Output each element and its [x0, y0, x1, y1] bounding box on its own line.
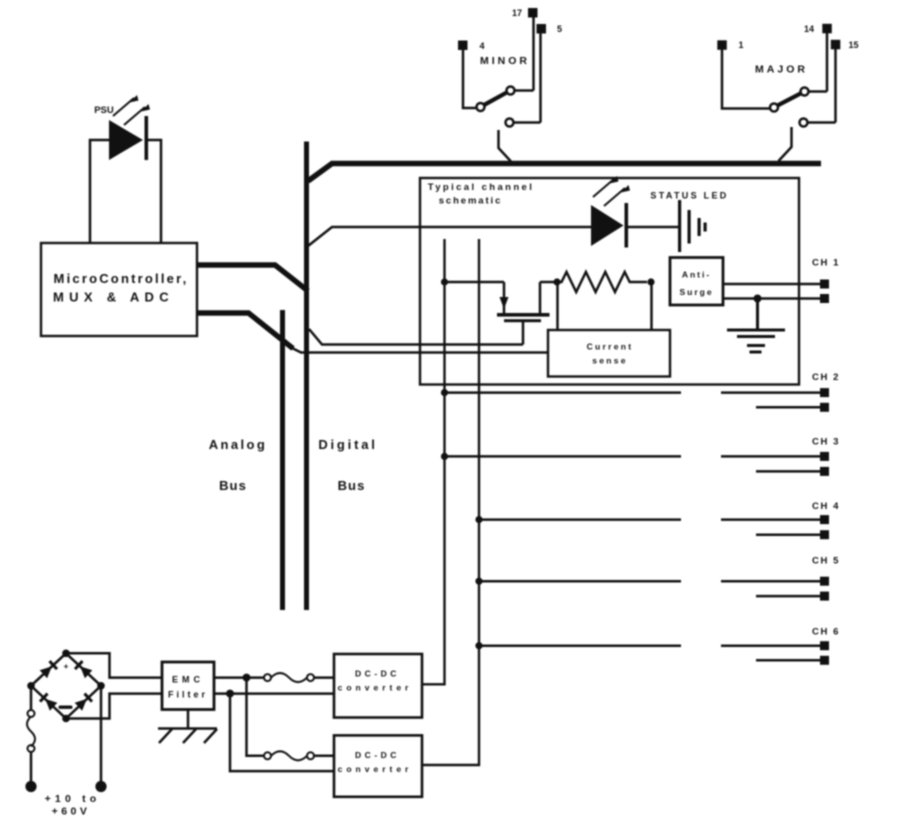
svg-text:5: 5 [557, 24, 562, 34]
svg-text:EMC: EMC [172, 675, 204, 685]
fuse F2 [264, 673, 334, 682]
EMC filter block [162, 662, 214, 710]
channel CH2 [441, 372, 840, 412]
transistor Q1 (MOSFET) [445, 282, 558, 345]
wire MCU digital out (thick) [197, 265, 308, 291]
channel CH3 [441, 437, 840, 476]
wire gate feed from digital bus [309, 329, 523, 345]
svg-text:STATUS LED: STATUS LED [650, 191, 728, 201]
supply rail 1 (top DC-DC to channels) [422, 239, 445, 684]
channel CH6 [475, 627, 840, 665]
wire bridge minus to EMC [66, 694, 162, 719]
wire EMC to fuse F2 [214, 676, 264, 679]
wire analog feed into channel box [292, 348, 548, 353]
DC-DC converter 2 [334, 735, 422, 796]
anti-surge block [670, 258, 723, 306]
wire resistor right to current sense [650, 282, 653, 330]
wire CH1 return [723, 297, 820, 300]
svg-text:CH 4: CH 4 [812, 501, 840, 512]
svg-text:+10 to: +10 to [45, 793, 101, 805]
diode top-right [74, 660, 92, 678]
svg-text:Surge: Surge [679, 287, 713, 297]
fuse F3 [264, 751, 334, 760]
terminal CH1 a [820, 280, 829, 289]
svg-text:DC-DC: DC-DC [355, 750, 400, 760]
svg-text:4: 4 [479, 41, 484, 51]
junction drain on rail 1 [441, 278, 448, 285]
svg-text:DC-DC: DC-DC [355, 669, 400, 679]
relay MAJOR K2 [722, 29, 836, 162]
wire CH1 hot [723, 283, 820, 286]
wire LED feed from digital bus [308, 227, 591, 246]
svg-text:Filter: Filter [168, 690, 208, 700]
node resistor right [647, 278, 654, 285]
node ground tap [754, 295, 762, 303]
MicroController block U1 [41, 243, 197, 336]
current sense block [548, 330, 670, 377]
wire MCU analog out (thick) [197, 313, 293, 349]
channel box (typical channel schematic) [420, 178, 799, 385]
wire return down to bottom DC-DC [230, 694, 334, 772]
svg-text:CH 5: CH 5 [812, 556, 840, 567]
diode top-left [40, 660, 58, 678]
chassis ground [158, 710, 217, 744]
svg-text:+60V: +60V [52, 806, 91, 818]
wire LED to ground [626, 226, 678, 229]
channel CH5 [475, 556, 840, 601]
svg-text:1: 1 [738, 40, 743, 50]
svg-text:Bus: Bus [219, 478, 247, 493]
svg-text:+: + [64, 661, 69, 671]
svg-text:Analog: Analog [209, 437, 267, 452]
svg-text:Current: Current [587, 342, 634, 352]
wire resistor left to current sense [556, 282, 559, 330]
svg-text:17: 17 [512, 8, 522, 18]
terminal supply - [95, 781, 106, 792]
svg-text:sense: sense [592, 356, 628, 366]
svg-text:Typical channel: Typical channel [428, 182, 535, 193]
wire bridge plus to EMC [66, 653, 162, 677]
relay MINOR K1 [463, 13, 541, 162]
svg-text:Anti-: Anti- [682, 270, 711, 280]
svg-text:schematic: schematic [439, 196, 503, 207]
wire EMC return to top DC-DC [214, 692, 334, 695]
fuse F1 (vertical) [27, 686, 35, 782]
diode bottom-left [39, 693, 57, 711]
node resistor left [553, 278, 560, 285]
svg-text:Bus: Bus [338, 478, 366, 493]
svg-text:MINOR: MINOR [480, 55, 530, 67]
svg-text:15: 15 [848, 40, 858, 50]
svg-text:CH 1: CH 1 [812, 258, 840, 269]
svg-text:CH 3: CH 3 [812, 437, 840, 448]
analog bus (vertical) [280, 310, 285, 610]
svg-text:MicroController,: MicroController, [54, 271, 189, 286]
svg-text:CH 6: CH 6 [812, 627, 840, 638]
node split return [226, 690, 234, 698]
wire right corner to terminal [100, 686, 103, 782]
status LED D2 [591, 176, 630, 248]
svg-text:14: 14 [804, 24, 814, 34]
resistor R1 [557, 272, 647, 292]
terminal CH1 b [820, 294, 829, 303]
bridge rectifier BR1 [31, 653, 101, 718]
top relay bus wire (thick) [308, 164, 821, 182]
channel CH4 [475, 501, 840, 539]
svg-text:PSU: PSU [94, 105, 114, 116]
DC-DC converter 1 [334, 654, 422, 718]
terminal supply + [25, 781, 36, 792]
digital bus (vertical) [304, 142, 309, 611]
svg-text:MUX & ADC: MUX & ADC [53, 290, 174, 305]
PSU LED D1 [90, 123, 161, 243]
ground [727, 299, 785, 354]
svg-text:CH 2: CH 2 [812, 372, 840, 383]
svg-text:converter: converter [338, 764, 413, 774]
supply rail 2 (bottom DC-DC to channels) [422, 239, 479, 765]
wire split down to F3 [247, 678, 265, 756]
svg-text:MAJOR: MAJOR [755, 64, 808, 76]
diode bottom-right [75, 693, 93, 711]
node split to F3 [243, 674, 251, 682]
svg-text:Digital: Digital [318, 437, 377, 452]
ground (rotated) for status LED [678, 200, 707, 252]
svg-text:converter: converter [338, 683, 413, 693]
